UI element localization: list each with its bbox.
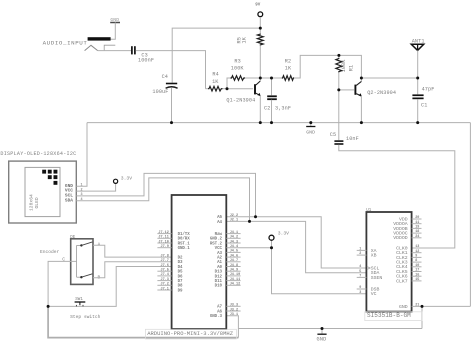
wire U1 GND to right edge ground	[422, 305, 470, 307]
svg-text:7: 7	[359, 275, 361, 279]
wire Q2 emitter to ground	[360, 96, 362, 123]
svg-text:D6: D6	[178, 275, 183, 279]
capacitor C4 100uF	[152, 74, 177, 95]
wire R5 to Q1 collector node	[259, 45, 261, 78]
svg-text:D0/RX: D0/RX	[178, 237, 191, 242]
ground GND (bottom symbol)	[317, 329, 327, 342]
wire encoder B to arduino D3	[93, 262, 172, 278]
svg-text:D12: D12	[215, 275, 223, 279]
display pin numbers 1-4	[80, 184, 82, 202]
label arduino value	[145, 329, 236, 339]
svg-text:3.3V: 3.3V	[121, 176, 132, 182]
wire 9V rail to C4	[172, 28, 260, 83]
svg-text:J4.11: J4.11	[230, 278, 241, 282]
svg-text:OLED: OLED	[34, 197, 40, 208]
ground GND (bus symbol)	[306, 123, 315, 136]
svg-text:2: 2	[359, 252, 361, 256]
svg-text:9: 9	[415, 255, 417, 259]
svg-text:XB: XB	[371, 253, 377, 259]
wire base node to Q1 base	[227, 88, 253, 90]
svg-text:J7.9: J7.9	[160, 245, 168, 249]
wire A4 row to U1 SDA	[226, 221, 366, 272]
node encoder/switch ground junction	[47, 305, 50, 308]
svg-text:J4.3: J4.3	[230, 240, 238, 244]
svg-text:C4: C4	[162, 74, 168, 80]
node Q2 collector junction	[360, 77, 363, 80]
wire Q1 emitter to ground bus	[259, 96, 261, 123]
label U1 value	[365, 312, 422, 321]
resistor R3 100K	[231, 58, 246, 80]
wire C1 to ground bus	[417, 99, 419, 122]
svg-text:128x64: 128x64	[29, 194, 35, 211]
svg-text:J4.8: J4.8	[230, 264, 238, 268]
svg-text:D5: D5	[178, 271, 183, 275]
svg-text:SSEN: SSEN	[371, 275, 383, 281]
svg-text:J7.2: J7.2	[160, 283, 168, 287]
U1 right pin numbers	[415, 216, 419, 307]
svg-text:J4.7: J4.7	[230, 259, 238, 263]
svg-text:4: 4	[359, 265, 361, 269]
svg-text:19: 19	[415, 226, 419, 230]
svg-text:D11: D11	[215, 280, 223, 284]
antenna ANT1	[411, 38, 424, 50]
U1 right pin stubs	[412, 219, 422, 281]
wire base node to Q2 base	[339, 89, 354, 91]
display module outer box	[9, 161, 77, 223]
node arduino 3.3V junction	[270, 246, 273, 249]
transistor Q2 2N3904	[355, 81, 396, 96]
svg-text:GND.2: GND.2	[210, 238, 223, 242]
supply 3.3V (display)	[114, 176, 133, 184]
wire audio branch down to R4	[206, 88, 209, 90]
U1 right pin names	[393, 216, 408, 309]
svg-text:J2.1: J2.1	[230, 219, 238, 223]
svg-text:Encoder: Encoder	[40, 249, 60, 255]
svg-text:RST.1: RST.1	[178, 242, 191, 246]
svg-text:10: 10	[415, 264, 419, 268]
wire ground bus right edge down	[469, 123, 471, 307]
node SCL/A5 junction	[254, 215, 257, 218]
svg-text:18: 18	[415, 230, 419, 234]
display pixel squares	[42, 170, 57, 185]
svg-text:C1: C1	[421, 103, 427, 109]
svg-text:J4.2: J4.2	[230, 236, 238, 240]
wire SCL net display to A5	[76, 173, 255, 216]
svg-text:A5: A5	[217, 216, 222, 220]
encoder internal contacts	[77, 242, 93, 279]
wire C2 to ground bus	[271, 100, 273, 123]
svg-text:D2: D2	[178, 257, 183, 261]
node C4 ground junction	[170, 121, 173, 124]
svg-text:1K: 1K	[285, 66, 292, 72]
wire encoder A to arduino D2	[93, 245, 172, 257]
wire ground bus	[87, 122, 470, 124]
arduino left pin names	[178, 232, 191, 293]
svg-text:11: 11	[415, 221, 419, 225]
supply 3.3V (arduino)	[269, 231, 289, 248]
U1 left pin stubs	[357, 250, 367, 289]
svg-text:R2: R2	[285, 58, 291, 64]
capacitor C3 100nF	[132, 46, 154, 63]
arduino right pin stubs	[226, 234, 240, 311]
svg-text:D13: D13	[215, 271, 223, 275]
svg-text:D1/TX: D1/TX	[178, 232, 191, 237]
wire display GND pin 1 to ground bus	[76, 123, 87, 187]
svg-text:17: 17	[415, 269, 419, 273]
svg-text:J7.11: J7.11	[158, 236, 169, 240]
capacitor C1 47pF	[412, 78, 434, 109]
svg-text:J4.1: J4.1	[230, 231, 238, 235]
ground GND (audio jack sleeve)	[110, 17, 120, 23]
wire R3 to collector node	[245, 77, 260, 79]
svg-text:13: 13	[415, 245, 419, 249]
svg-text:D7: D7	[178, 280, 183, 284]
svg-text:Raw: Raw	[215, 233, 223, 237]
svg-text:1K: 1K	[241, 36, 247, 43]
svg-text:CLK7: CLK7	[396, 278, 408, 284]
svg-text:ARDUINO-PRO-MINI-3.3V/8MHZ: ARDUINO-PRO-MINI-3.3V/8MHZ	[147, 330, 234, 337]
wire 3.3V to U1 VC	[272, 248, 367, 294]
svg-text:8: 8	[415, 259, 417, 263]
svg-text:2: 2	[80, 188, 82, 192]
wire R1 top	[338, 55, 340, 57]
svg-text:Q1-2N3904: Q1-2N3904	[226, 98, 255, 104]
svg-text:SW1: SW1	[75, 298, 83, 302]
wire jack tip to C3	[98, 50, 131, 52]
node Q1 base node	[226, 87, 229, 90]
svg-text:J4.12: J4.12	[230, 283, 241, 287]
svg-text:GND: GND	[317, 336, 327, 342]
node bottom GND tap	[321, 327, 324, 330]
node SDA/A4 junction	[248, 220, 251, 223]
svg-text:J7.8: J7.8	[160, 254, 168, 258]
svg-text:J7.4: J7.4	[160, 273, 168, 277]
svg-text:16: 16	[415, 273, 419, 277]
svg-text:A4: A4	[217, 221, 222, 225]
svg-text:R1: R1	[349, 65, 355, 71]
svg-text:3.3V: 3.3V	[278, 231, 289, 237]
rotary encoder body	[71, 239, 93, 285]
wire bottom rail up to arduino GND.3	[226, 316, 238, 338]
svg-text:GND.1: GND.1	[178, 247, 191, 251]
svg-text:12: 12	[415, 250, 419, 254]
svg-text:R4: R4	[212, 71, 218, 77]
svg-text:GND: GND	[306, 130, 315, 136]
wire encoder ground to bottom rail	[48, 306, 238, 337]
svg-text:A7: A7	[217, 306, 222, 310]
svg-text:J3.3: J3.3	[230, 304, 238, 308]
wire R4 to base node	[223, 88, 227, 90]
node Q2 base junction	[337, 88, 340, 91]
svg-text:J7.3: J7.3	[160, 278, 168, 282]
svg-text:D10: D10	[215, 285, 223, 289]
wire Q1 collector to node	[259, 78, 261, 81]
svg-text:D8: D8	[178, 285, 183, 289]
IC arduino pro mini box	[172, 195, 227, 329]
display pin names	[65, 183, 73, 203]
svg-text:A: A	[98, 241, 101, 247]
wire collector node to C2/R2 node	[260, 77, 282, 79]
wire A5 row to U1 SCL	[226, 217, 366, 268]
wire R1 top node to Q2 collector	[339, 55, 362, 81]
U1 left pin numbers	[359, 248, 361, 295]
svg-text:9: 9	[359, 286, 361, 290]
wire display VCC pin 2 to 3.3V	[76, 183, 115, 191]
node R1 top junction	[337, 54, 340, 57]
display module inner box	[25, 167, 60, 216]
node C2 top junction	[270, 77, 273, 80]
node Q1 emitter ground	[259, 121, 262, 124]
svg-text:J4.4: J4.4	[230, 245, 238, 249]
capacitor C5 10nF	[330, 90, 359, 145]
svg-text:D4: D4	[178, 266, 183, 270]
node U1 GND junction	[421, 305, 424, 308]
svg-text:R3: R3	[234, 58, 240, 64]
svg-text:3: 3	[359, 291, 361, 295]
svg-text:A3: A3	[217, 252, 222, 256]
U1 left pin names	[371, 248, 383, 297]
svg-text:5: 5	[359, 270, 361, 274]
wire C4 to ground bus	[171, 88, 173, 123]
svg-text:100uF: 100uF	[152, 89, 168, 95]
wire R2 to R1 top node	[294, 55, 339, 78]
svg-text:3,3nF: 3,3nF	[275, 106, 291, 112]
svg-text:GND.3: GND.3	[210, 315, 223, 319]
wire 9V to rail	[259, 17, 261, 28]
svg-text:A2: A2	[217, 257, 222, 261]
node bus GND tap	[309, 121, 312, 124]
node 9V rail junction	[259, 27, 262, 30]
svg-text:A1: A1	[217, 261, 222, 265]
resistor R5 1K	[237, 34, 264, 46]
svg-text:20: 20	[415, 216, 419, 220]
svg-text:24: 24	[415, 235, 419, 239]
resistor R1 100K	[336, 58, 355, 73]
svg-text:J7.1: J7.1	[160, 287, 168, 291]
svg-text:D3: D3	[178, 261, 183, 265]
supply 9V	[255, 3, 262, 16]
transistor Q1 2N3904	[226, 81, 260, 104]
svg-text:SI5351B-B-GM: SI5351B-B-GM	[367, 312, 411, 319]
svg-text:AUDIO_INPUT: AUDIO_INPUT	[43, 39, 88, 46]
svg-text:J7.12: J7.12	[158, 231, 169, 235]
svg-text:D9: D9	[178, 289, 183, 293]
svg-text:A0: A0	[217, 266, 222, 270]
wire ground to SW1 and arduino D4	[48, 267, 172, 307]
IC U1 SI5351 box	[366, 212, 411, 312]
resistor R2 1K	[282, 58, 294, 80]
arduino right pin names	[210, 216, 223, 319]
wire bottom ground line	[238, 328, 422, 330]
wire U1 GND pin	[412, 305, 422, 307]
svg-text:Step switch: Step switch	[70, 314, 101, 320]
arduino left stub labels J7.x	[158, 231, 169, 291]
node Q1 collector junction	[259, 77, 262, 80]
svg-text:J3.1: J3.1	[230, 313, 238, 317]
U1 SCL clock arrow	[367, 266, 370, 269]
svg-text:4: 4	[80, 198, 82, 202]
switch SW1 step switch	[75, 298, 86, 307]
capacitor C2 3,3nF	[264, 78, 291, 112]
resistor R4 1K	[208, 71, 223, 91]
wire 9V rail to R5	[259, 28, 261, 33]
svg-text:VCC: VCC	[215, 247, 223, 251]
svg-text:A6: A6	[217, 310, 222, 314]
svg-text:15: 15	[415, 278, 419, 282]
node Q2 emitter ground	[360, 121, 363, 124]
svg-text:9V: 9V	[255, 3, 261, 7]
arduino right stub labels	[230, 214, 241, 317]
svg-text:RST.2: RST.2	[210, 242, 223, 246]
wire C3 to R4 branch	[136, 51, 206, 89]
svg-text:J7.10: J7.10	[158, 240, 169, 244]
connector AUDIO_INPUT jack	[43, 37, 116, 50]
wire R1 bottom to Q2 base node	[338, 72, 340, 90]
svg-text:47pF: 47pF	[422, 87, 435, 93]
wire collector to antenna node	[361, 77, 417, 79]
svg-text:10nF: 10nF	[346, 136, 359, 142]
svg-text:J4.5: J4.5	[230, 250, 238, 254]
svg-text:J4.10: J4.10	[230, 273, 241, 277]
svg-text:C2: C2	[264, 106, 270, 112]
node C1 ground junction	[416, 121, 419, 124]
svg-text:3: 3	[80, 193, 82, 197]
node antenna junction	[416, 77, 419, 80]
wire jack sleeve to GND	[111, 22, 116, 39]
svg-text:J4.9: J4.9	[230, 269, 238, 273]
svg-text:J3.2: J3.2	[230, 308, 238, 312]
wire SDA net display to A4	[76, 178, 249, 222]
node C2 ground junction	[270, 121, 273, 124]
wire antenna to node	[417, 50, 419, 78]
svg-text:100K: 100K	[231, 66, 245, 72]
svg-text:GND: GND	[399, 304, 408, 310]
svg-text:DISPLAY-OLED-128X64-I2C: DISPLAY-OLED-128X64-I2C	[0, 151, 76, 157]
svg-text:ANT1: ANT1	[412, 38, 425, 44]
svg-text:1: 1	[359, 248, 361, 252]
svg-text:VC: VC	[371, 291, 377, 297]
display rotated label 128x64 OLED	[29, 194, 40, 211]
svg-text:J7.5: J7.5	[160, 269, 168, 273]
svg-text:C5: C5	[330, 132, 336, 138]
svg-text:1K: 1K	[212, 79, 219, 85]
wire encoder C to ground	[48, 261, 77, 306]
svg-text:VDDOD: VDDOD	[393, 235, 408, 241]
svg-text:J4.6: J4.6	[230, 254, 238, 258]
svg-text:1: 1	[80, 184, 82, 188]
svg-text:J2.2: J2.2	[230, 214, 238, 218]
wire U1 GND down to bottom ground	[421, 306, 423, 328]
wire arduino VCC to 3.3V	[226, 247, 271, 249]
svg-text:SDA: SDA	[65, 197, 73, 203]
svg-text:Q2-2N3904: Q2-2N3904	[367, 90, 396, 96]
wire C5 to CLK0	[339, 145, 455, 248]
svg-text:J7.6: J7.6	[160, 264, 168, 268]
svg-text:J7.7: J7.7	[160, 259, 168, 263]
svg-text:100nF: 100nF	[138, 57, 154, 63]
arduino left pin stubs	[157, 234, 171, 290]
wire base node up to R3	[227, 78, 231, 89]
